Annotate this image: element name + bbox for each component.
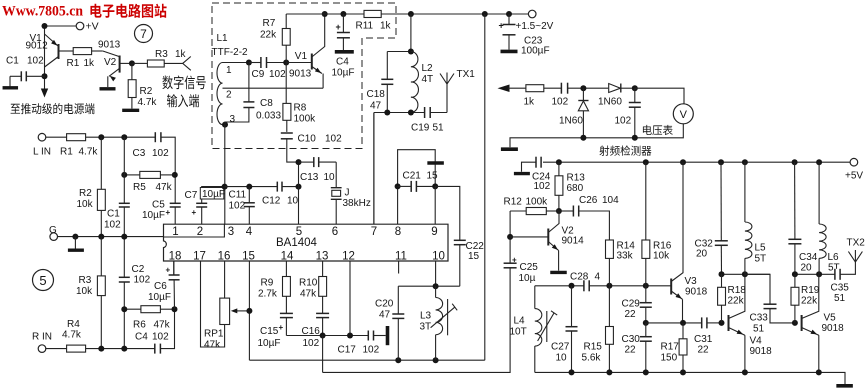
svg-text:5.6k: 5.6k — [582, 353, 602, 364]
svg-text:C20: C20 — [375, 299, 394, 310]
svg-text:+5V: +5V — [845, 171, 863, 182]
svg-text:9013: 9013 — [98, 40, 121, 51]
wire C22 branch — [435, 186, 460, 240]
junction L2 top — [408, 49, 414, 55]
wire pin15 column — [248, 261, 250, 360]
terminal G — [50, 233, 58, 241]
svg-text:L4: L4 — [514, 316, 526, 327]
svg-text:BA1404: BA1404 — [276, 237, 318, 249]
svg-text:1: 1 — [172, 226, 178, 238]
svg-text:100µF: 100µF — [521, 46, 550, 57]
transistor V4 9018 — [728, 315, 730, 331]
svg-text:33k: 33k — [617, 251, 634, 262]
svg-text:1k: 1k — [524, 97, 536, 108]
junction pin5 node — [296, 184, 302, 190]
svg-text:10: 10 — [324, 172, 336, 183]
wire BA1404 vcc return bus — [249, 359, 484, 361]
junction R6 ends — [121, 306, 127, 312]
ground bar for pin8/pin9 node — [427, 161, 444, 165]
capacitor C31 22 series — [702, 317, 707, 328]
svg-text:150: 150 — [661, 353, 678, 364]
ground for V2 emitter — [107, 76, 109, 87]
svg-text:R5: R5 — [133, 182, 146, 193]
transistor V2 9014 (NPN) — [510, 236, 548, 238]
capacitor C15 10uF electrolytic — [280, 313, 293, 317]
capacitor C24 102 rail bypass — [536, 157, 541, 168]
svg-text:R1: R1 — [67, 58, 80, 69]
svg-text:102: 102 — [134, 275, 151, 286]
svg-text:L IN: L IN — [33, 147, 51, 158]
svg-text:9018: 9018 — [685, 287, 708, 298]
arrow to driver stage supply — [41, 89, 48, 98]
circled numeral 5 — [33, 270, 54, 291]
capacitor 102 (probe coupling) — [544, 87, 562, 89]
resistor R14 33k — [606, 240, 614, 258]
wire pin10 stub — [435, 261, 437, 286]
svg-text:13: 13 — [316, 251, 329, 263]
svg-text:22k: 22k — [801, 296, 818, 307]
svg-text:102: 102 — [325, 134, 342, 145]
svg-text:22k: 22k — [260, 30, 277, 41]
terminal +5V — [850, 158, 858, 166]
wire +5V rail — [543, 161, 850, 163]
wire pin10 node bus — [398, 285, 460, 287]
svg-text:+: + — [279, 323, 284, 332]
wire R12 left column — [509, 211, 511, 263]
svg-text:C5: C5 — [152, 200, 165, 211]
svg-text:1k: 1k — [380, 21, 392, 32]
svg-text:12: 12 — [342, 251, 355, 263]
capacitor C10 102 — [281, 133, 293, 139]
capacitor C21 15 — [411, 181, 416, 192]
svg-text:8: 8 — [395, 226, 401, 238]
svg-text:104: 104 — [602, 195, 619, 206]
svg-text:C1: C1 — [6, 56, 19, 67]
wire C15/C16/pin12 bus — [286, 335, 368, 337]
svg-text:10k: 10k — [76, 286, 93, 297]
wire audio return bus (to C25) — [323, 268, 511, 372]
capacitor C33 51 interstage — [745, 274, 770, 304]
diode 1N60 shunt — [582, 88, 584, 100]
svg-text:R11: R11 — [356, 21, 374, 32]
svg-text:3T: 3T — [420, 322, 432, 333]
diode 1N60 series — [609, 84, 621, 93]
svg-text:102: 102 — [229, 201, 246, 212]
svg-text:100k: 100k — [294, 114, 317, 125]
svg-text:R3: R3 — [155, 49, 168, 60]
wire pin4/pin5 coupling bus — [225, 186, 278, 188]
svg-text:+V: +V — [86, 21, 99, 33]
svg-text:9013: 9013 — [289, 69, 312, 80]
svg-text:1N60: 1N60 — [598, 97, 622, 108]
capacitor C28 4 series — [584, 280, 589, 291]
svg-text:R8: R8 — [294, 103, 307, 114]
svg-text:C9: C9 — [252, 69, 265, 80]
svg-text:C4: C4 — [135, 332, 148, 343]
junction V2 collector — [129, 60, 135, 66]
svg-text:20: 20 — [801, 263, 813, 274]
capacitor C9 102 — [261, 57, 267, 68]
ground for C4 — [335, 50, 354, 54]
svg-text:R9: R9 — [261, 278, 274, 289]
antenna TX1 — [446, 84, 448, 113]
svg-text:102: 102 — [152, 332, 169, 343]
svg-text:47k: 47k — [154, 320, 171, 331]
terminal R IN — [38, 345, 46, 353]
capacitor C7 10uF on pin2 — [201, 207, 203, 224]
svg-text:3: 3 — [228, 226, 234, 238]
svg-text:10: 10 — [287, 196, 299, 207]
wire C3 to C5 branch — [161, 137, 175, 203]
resistor R13 680 — [558, 162, 560, 176]
wire pin18 stub — [173, 261, 175, 275]
svg-text:C18: C18 — [367, 89, 386, 100]
svg-text:R13: R13 — [567, 173, 586, 184]
digital input fork connector — [164, 62, 183, 64]
svg-text:C29: C29 — [622, 299, 641, 310]
svg-text:10k: 10k — [653, 251, 670, 262]
capacitor C23 100uF — [508, 14, 510, 25]
svg-text:4: 4 — [246, 226, 253, 238]
wire V1 base to R1 — [59, 50, 73, 52]
svg-text:15: 15 — [468, 251, 480, 262]
svg-text:R18: R18 — [728, 285, 747, 296]
svg-text:+: + — [192, 208, 197, 217]
svg-text:+: + — [166, 208, 171, 217]
svg-text:51: 51 — [433, 123, 445, 134]
wire R1 to V2 base — [92, 50, 103, 52]
svg-text:R1: R1 — [60, 147, 73, 158]
junction L node — [98, 134, 104, 140]
svg-text:+: + — [499, 21, 504, 31]
resistor R6 47k — [124, 308, 141, 310]
svg-text:7: 7 — [371, 226, 377, 238]
antenna TX2 — [848, 252, 862, 263]
inductor L6 5T — [818, 162, 820, 224]
resistor R8 100k — [285, 63, 287, 104]
svg-text:5: 5 — [296, 226, 302, 238]
svg-text:C17: C17 — [338, 345, 357, 356]
wire V3 emitter bus — [646, 322, 702, 324]
svg-text:V5: V5 — [824, 313, 837, 324]
svg-text:R7: R7 — [263, 18, 276, 29]
svg-text:102: 102 — [104, 220, 121, 231]
svg-text:47k: 47k — [156, 182, 173, 193]
resistor R2 4.7k — [131, 63, 133, 79]
svg-text:18: 18 — [169, 251, 182, 263]
svg-text:Www.7805.cn: Www.7805.cn — [2, 4, 83, 20]
svg-text:22: 22 — [625, 345, 637, 356]
svg-text:100k: 100k — [526, 197, 549, 208]
wire top supply rail — [286, 13, 364, 15]
wire G bus — [57, 236, 163, 238]
ground bar sideways for C17 — [386, 326, 390, 345]
svg-text:10µF: 10µF — [202, 189, 225, 200]
wire pin9 column — [434, 186, 436, 224]
svg-text:C26: C26 — [579, 195, 598, 206]
transistor V3 9018 — [670, 279, 672, 295]
resistor R10 47k on pin13 — [322, 261, 324, 277]
svg-text:9018: 9018 — [822, 323, 845, 334]
svg-text:6: 6 — [332, 226, 338, 238]
resistor 1k (probe) — [526, 85, 544, 92]
capacitor C12 10 — [277, 182, 282, 192]
junction — [42, 23, 48, 29]
wire collector to R3 — [132, 62, 148, 64]
junction V5 collector bus — [792, 271, 798, 277]
svg-text:C13: C13 — [300, 172, 319, 183]
svg-text:10µF: 10µF — [148, 292, 171, 303]
resistor R2 10k (audio) — [100, 137, 102, 189]
ground for C24 — [514, 172, 530, 175]
svg-text:9: 9 — [431, 226, 437, 238]
inductor L2 4T — [411, 52, 419, 113]
junction pin3/C7 — [222, 184, 228, 190]
svg-text:R12: R12 — [504, 197, 523, 208]
resistor R12 100k — [510, 210, 526, 212]
junction V1 base node — [283, 60, 289, 66]
junction pin10/L3 — [433, 283, 439, 289]
svg-text:51: 51 — [834, 293, 846, 304]
wire pin3 column from L1 tap3 — [224, 125, 226, 225]
wire +V feed — [45, 26, 77, 95]
junction V4 base node — [719, 320, 725, 326]
svg-text:47: 47 — [379, 310, 391, 321]
svg-text:R10: R10 — [299, 278, 318, 289]
svg-text:14: 14 — [281, 251, 294, 263]
capacitor C2 102 — [119, 277, 130, 282]
svg-text:102: 102 — [269, 69, 286, 80]
capacitor C5 10uF electrolytic — [170, 203, 181, 207]
svg-text:C19: C19 — [411, 123, 430, 134]
junction emitter feedback node — [643, 320, 649, 326]
svg-text:2: 2 — [197, 226, 203, 238]
junction rail nodes — [340, 11, 346, 17]
svg-text:TX2: TX2 — [847, 238, 866, 249]
wire output stage ground rail — [535, 372, 845, 384]
svg-text:5: 5 — [39, 273, 46, 288]
svg-text:R2: R2 — [140, 86, 153, 97]
svg-text:102: 102 — [27, 56, 44, 67]
svg-text:V2: V2 — [104, 57, 117, 68]
svg-text:C2: C2 — [132, 264, 145, 275]
svg-text:R15: R15 — [584, 342, 603, 353]
svg-text:16: 16 — [218, 251, 231, 263]
svg-text:C33: C33 — [750, 313, 769, 324]
capacitor C8 0.033 — [248, 63, 250, 102]
wire detector return — [510, 124, 683, 148]
resistor R1 4.7k (audio) — [67, 134, 86, 141]
capacitor C16 102 — [316, 313, 329, 317]
svg-text:V1: V1 — [295, 51, 308, 62]
svg-text:R17: R17 — [661, 342, 680, 353]
svg-text:C7: C7 — [185, 190, 198, 201]
transistor V2 9013 (NPN) — [119, 56, 121, 73]
resistor R9 2.7k on pin14 — [285, 261, 287, 277]
inductor L1 tapped coil — [217, 63, 223, 125]
svg-text:2: 2 — [226, 90, 232, 101]
svg-text:L2: L2 — [422, 63, 434, 74]
svg-text:47: 47 — [370, 101, 382, 112]
junction C21 right / pin9 — [432, 183, 438, 189]
junction R5 left — [121, 172, 127, 178]
wire R1 to junctions — [86, 136, 156, 138]
svg-text:RP1: RP1 — [204, 329, 224, 340]
junction ground rail — [569, 369, 575, 375]
svg-text:G: G — [49, 225, 57, 236]
inductor L5 5T — [744, 162, 746, 222]
junction RP1 wiper — [246, 308, 252, 314]
svg-text:102: 102 — [303, 338, 320, 349]
svg-text:4T: 4T — [422, 74, 434, 85]
terminal +V — [76, 22, 84, 30]
svg-text:10µ: 10µ — [519, 273, 536, 284]
wire pin12 column — [349, 261, 351, 336]
svg-text:4: 4 — [595, 272, 601, 283]
wire pin5 column — [298, 162, 300, 224]
svg-text:5T: 5T — [755, 254, 767, 265]
junction on vcc return — [395, 357, 401, 363]
junction input bus — [569, 283, 575, 289]
svg-text:+: + — [336, 22, 341, 32]
circled numeral 7 — [135, 25, 153, 43]
svg-text:22: 22 — [625, 309, 637, 320]
wire to voltmeter — [635, 88, 684, 104]
wire pin17 to RP1 bottom — [201, 261, 225, 347]
resistor R15 5.6k — [608, 286, 610, 327]
ground for C23 — [501, 50, 518, 54]
svg-text:L6: L6 — [828, 252, 840, 263]
junction C21 left — [395, 183, 401, 189]
svg-text:0.033: 0.033 — [256, 111, 281, 122]
wire pin16 to RP1 top — [224, 261, 226, 298]
svg-text:17: 17 — [193, 251, 206, 263]
svg-text:C27: C27 — [551, 342, 570, 353]
junction V5 base node — [792, 320, 798, 326]
rf probe arrow — [498, 85, 510, 93]
svg-text:1k: 1k — [175, 49, 187, 60]
ground for V2 emitter — [550, 271, 567, 274]
junction V1 collector on rail — [322, 11, 328, 17]
svg-text:102: 102 — [552, 97, 569, 108]
svg-text:R IN: R IN — [32, 332, 52, 343]
capacitor C34 20 — [794, 162, 796, 239]
svg-text:38kHz: 38kHz — [343, 198, 371, 209]
svg-text:9018: 9018 — [750, 346, 773, 357]
svg-text:4.7k: 4.7k — [79, 147, 99, 158]
resistor R1 1k — [73, 48, 91, 55]
svg-text:R6: R6 — [133, 320, 146, 331]
junction on bus — [320, 333, 326, 339]
svg-text:V4: V4 — [750, 336, 763, 347]
svg-text:10k: 10k — [77, 199, 94, 210]
svg-text:10: 10 — [556, 353, 568, 364]
capacitor C4 10uF bypass — [342, 14, 344, 33]
wire V4 collector bus — [722, 273, 771, 275]
terminal +1.5~2V battery — [528, 10, 536, 18]
svg-text:C6: C6 — [154, 281, 167, 292]
svg-text:C10: C10 — [298, 134, 317, 145]
svg-text:102: 102 — [363, 345, 380, 356]
wire C1/C2 column — [123, 137, 125, 203]
junction filter cap — [632, 85, 638, 91]
wire L IN to R1 — [45, 136, 66, 138]
transistor V1 9013 (NPN, oscillator) — [286, 62, 311, 64]
inductor L3 3T adjustable — [435, 286, 437, 297]
resistor R17 150 — [682, 323, 684, 339]
junction detector return — [580, 135, 586, 141]
capacitor C3 102 — [155, 132, 161, 142]
svg-text:V: V — [680, 109, 688, 121]
resistor R11 1k (in rail) — [364, 10, 381, 17]
svg-text:51: 51 — [753, 324, 765, 335]
svg-text:C35: C35 — [831, 283, 850, 294]
svg-text:C4: C4 — [336, 57, 349, 68]
svg-text:4.7k: 4.7k — [62, 330, 82, 341]
wire L2 branch — [410, 14, 412, 52]
svg-text:+: + — [512, 256, 517, 265]
svg-text:102: 102 — [152, 148, 169, 159]
junction V2 base node — [507, 234, 513, 240]
svg-text:47k: 47k — [300, 289, 317, 300]
transistor V5 9018 — [801, 315, 803, 331]
capacitor C13 10 — [299, 161, 314, 163]
capacitor C27 10 — [571, 286, 573, 327]
capacitor C1 102 (audio) — [119, 203, 130, 207]
wire V5 collector bus — [795, 273, 835, 275]
wire 9018 stage input bus — [535, 285, 584, 287]
svg-text:C3: C3 — [133, 148, 146, 159]
crystal J 38kHz on pin6 — [335, 162, 337, 188]
voltmeter V — [673, 104, 693, 124]
svg-text:15: 15 — [242, 251, 255, 263]
svg-text:22: 22 — [698, 345, 710, 356]
capacitor C35 51 output — [835, 269, 840, 280]
svg-text:R3: R3 — [79, 275, 92, 286]
ground for R2 — [122, 109, 139, 112]
terminal L IN — [38, 133, 46, 141]
svg-text:680: 680 — [567, 183, 584, 194]
svg-text:1N60: 1N60 — [559, 116, 583, 127]
svg-text:C30: C30 — [622, 334, 641, 345]
wire pin7 column — [373, 113, 375, 225]
capacitor C19 51 — [425, 107, 431, 118]
svg-text:L1: L1 — [217, 33, 229, 44]
junction L1 tap3 — [222, 122, 228, 128]
capacitor C32 20 — [720, 162, 722, 241]
junction R5 right — [172, 172, 178, 178]
ground rf detector — [501, 147, 518, 151]
svg-text:2.7k: 2.7k — [258, 289, 278, 300]
svg-text:J: J — [345, 188, 350, 199]
capacitor C18 47 — [386, 52, 388, 80]
svg-text:10µF: 10µF — [332, 68, 355, 79]
capacitor C30 22 — [640, 337, 652, 342]
svg-text:C8: C8 — [260, 98, 273, 109]
wire C16 junction down to audio return bus — [322, 336, 324, 373]
svg-text:C28: C28 — [570, 272, 589, 283]
wire tank bottom — [374, 112, 425, 114]
wire battery rail drop to BA1404 ground bus — [484, 14, 486, 360]
svg-text:4.7k: 4.7k — [138, 97, 158, 108]
resistor R19 22k — [791, 287, 799, 305]
resistor R7 22k — [285, 14, 287, 29]
junction L1 top / C8 — [246, 60, 252, 66]
junction V2 collector node — [556, 208, 562, 214]
wire R IN line — [45, 348, 66, 350]
junction V3 emitter / R17 — [680, 320, 686, 326]
wire pin8 column up to ground stub — [398, 150, 436, 225]
